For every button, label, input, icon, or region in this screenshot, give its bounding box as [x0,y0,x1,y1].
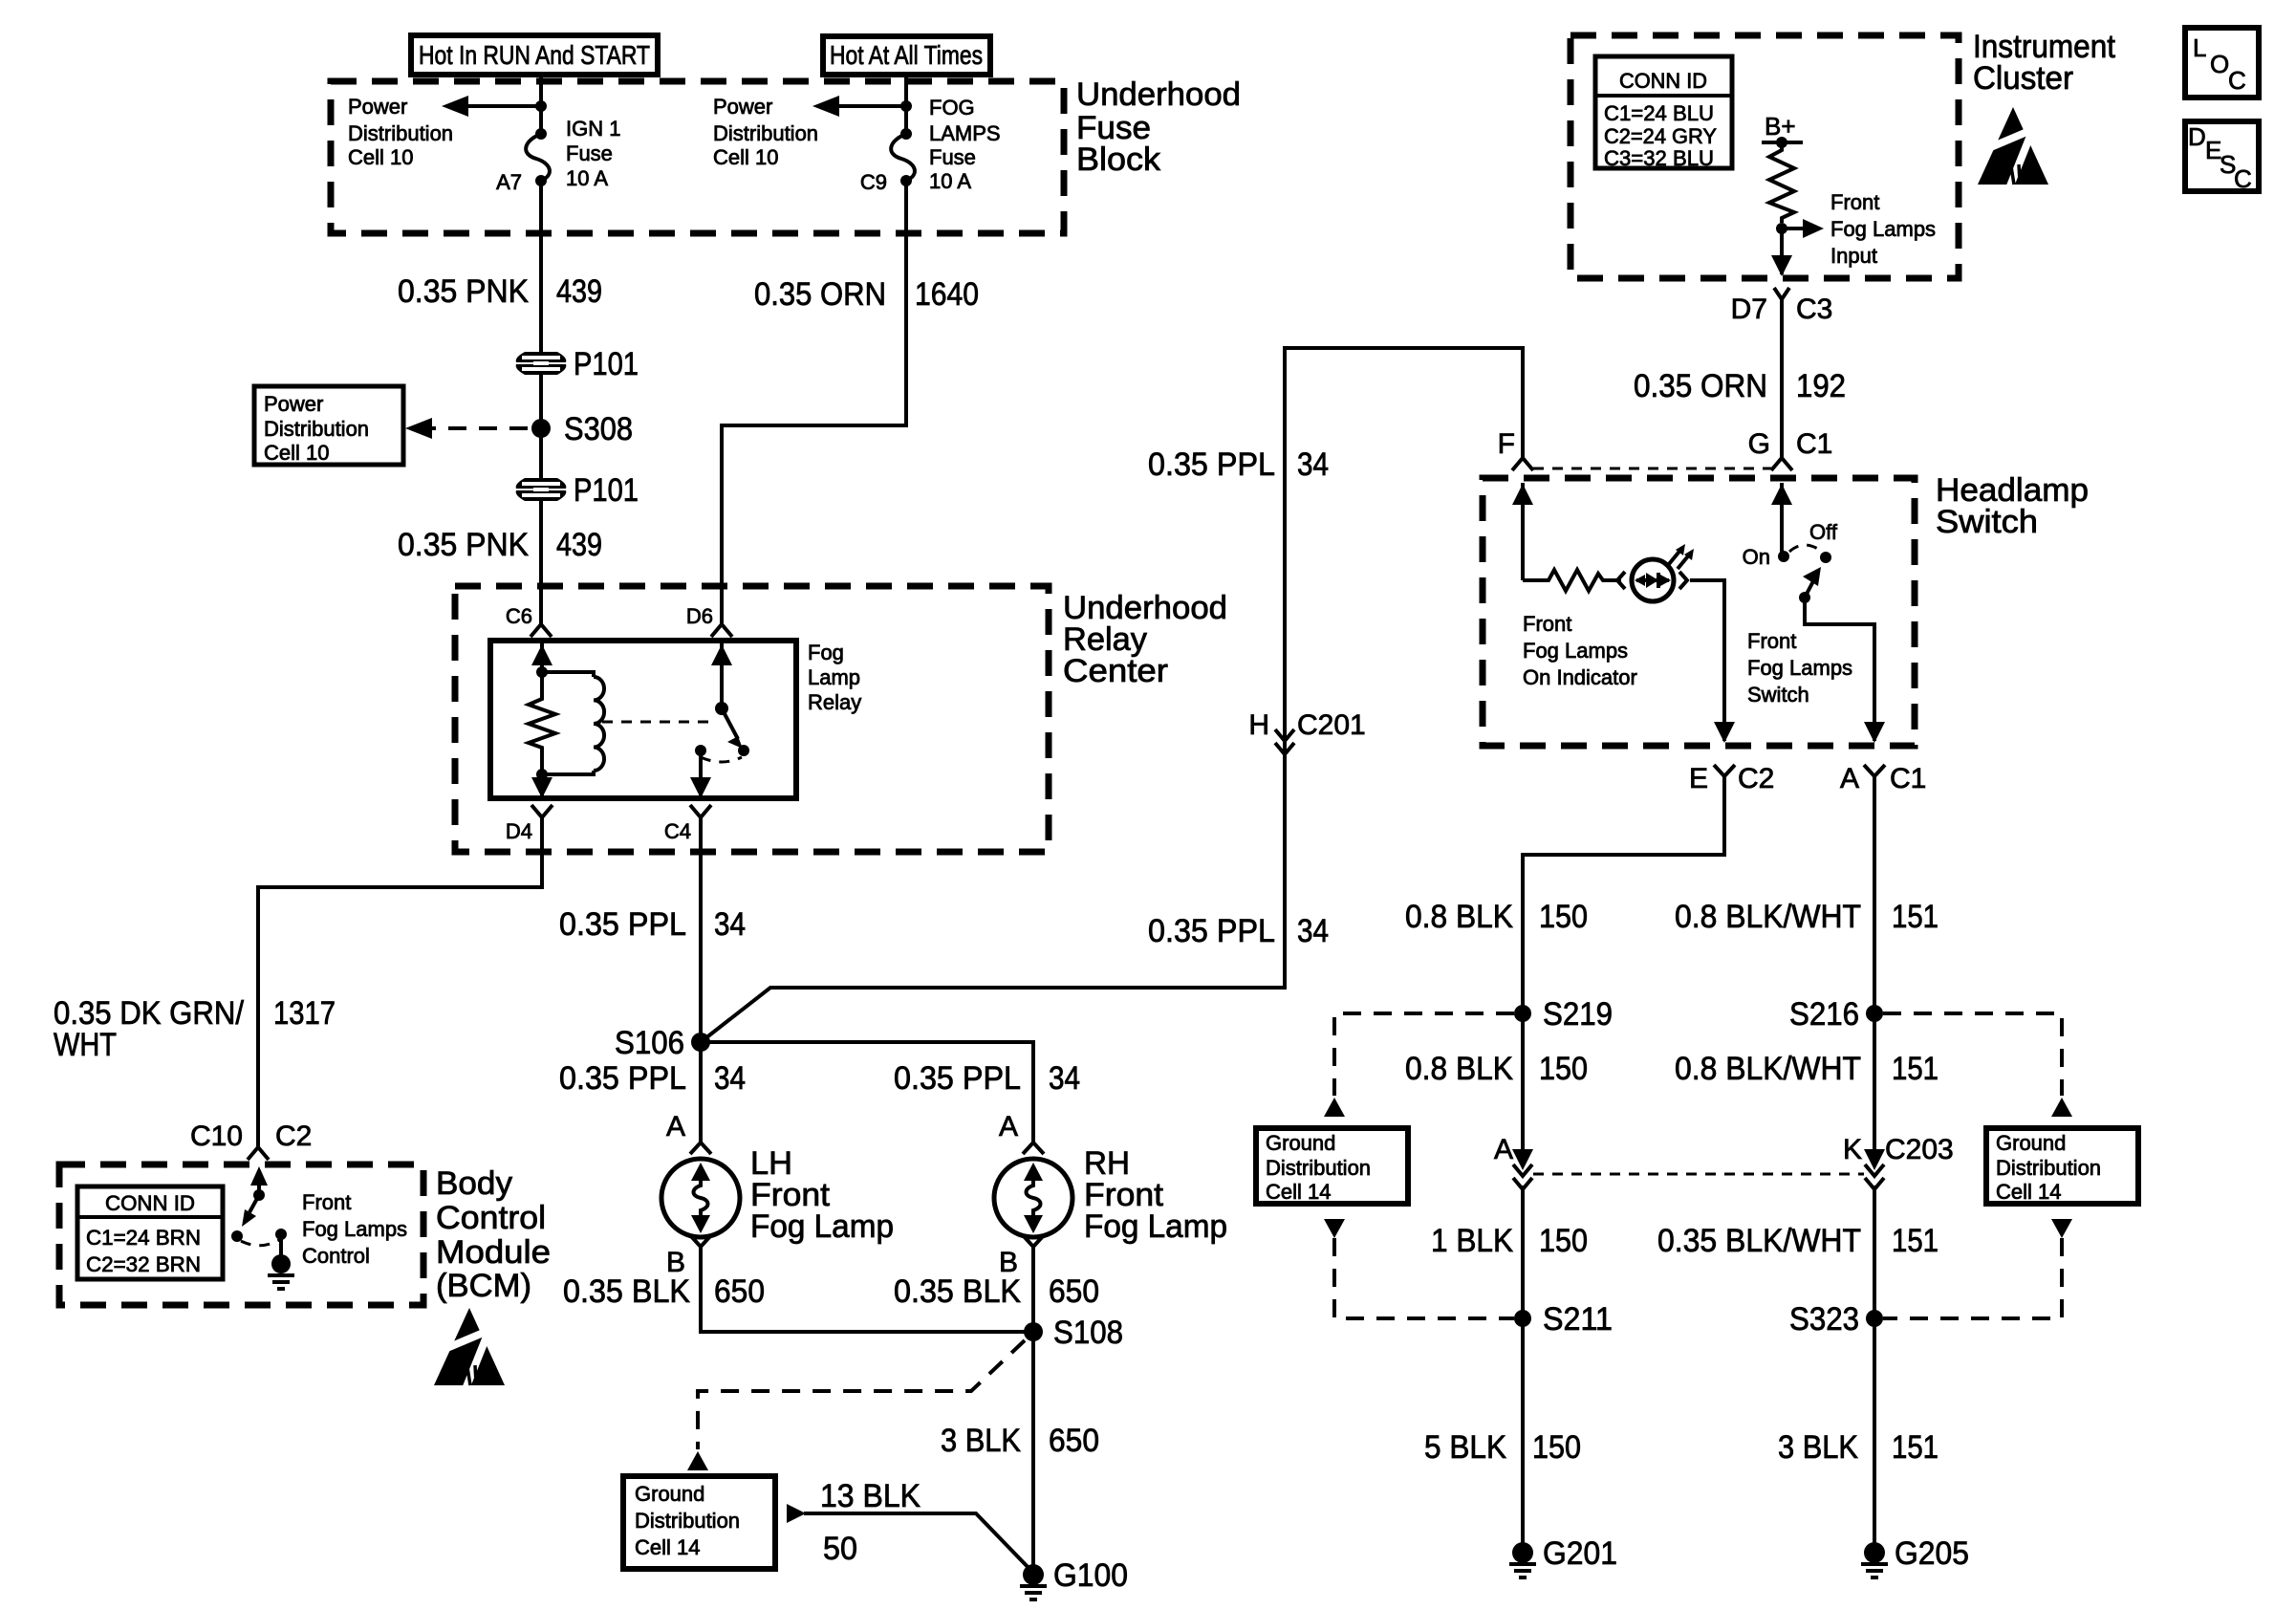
svg-text:34: 34 [714,1060,746,1097]
svg-text:A: A [1494,1134,1513,1165]
reference arrow (up triangle, left) [1324,1098,1345,1117]
svg-text:S108: S108 [1053,1315,1123,1351]
ground G100 [1020,1564,1047,1599]
underhood fuse block label [1076,76,1241,178]
wire label 13 BLK / 50 [820,1478,921,1567]
svg-text:C1=24 BLU: C1=24 BLU [1604,101,1714,125]
svg-text:650: 650 [1049,1423,1099,1459]
svg-text:Power: Power [264,392,323,416]
reference arrow (down triangle, left) [1324,1219,1345,1238]
pin labels K | C203 [1843,1134,1954,1165]
connector C203 right (arrow + double chevron) [1864,1149,1885,1189]
splice S216 [1866,1005,1883,1022]
svg-text:Fog Lamp: Fog Lamp [750,1208,894,1245]
text: Power Distribution Cell 10 (right) [713,95,818,169]
svg-text:3 BLK: 3 BLK [1778,1429,1858,1466]
svg-text:3 BLK: 3 BLK [941,1423,1021,1459]
underhood fuse block dashed box [331,81,1064,233]
connector chevron B (LH) [690,1235,711,1247]
svg-text:0.35 PPL: 0.35 PPL [559,906,686,943]
BCM internal ground [268,1234,294,1289]
svg-text:C: C [2228,66,2246,95]
svg-text:Front: Front [1523,612,1571,636]
wire label 0.35 PPL 34 (below C4) [559,906,746,943]
LH fog lamp label [750,1145,894,1245]
svg-text:FOG: FOG [929,96,975,120]
svg-text:150: 150 [1532,1429,1581,1466]
svg-text:0.35 ORN: 0.35 ORN [1634,368,1767,404]
fuse label: IGN 1 Fuse 10 A [566,117,620,190]
svg-text:C2: C2 [275,1120,312,1152]
svg-text:G205: G205 [1895,1535,1969,1572]
svg-text:Fog Lamps: Fog Lamps [1830,217,1936,241]
svg-text:1317: 1317 [273,995,336,1032]
splice S219 [1514,1005,1531,1022]
text: Power Distribution Cell 10 (left) [348,95,453,169]
svg-text:Input: Input [1830,244,1877,268]
svg-text:CONN ID: CONN ID [105,1191,195,1215]
pin labels C10 | C2 [190,1120,312,1152]
svg-text:P101: P101 [574,472,639,509]
svg-text:S216: S216 [1789,996,1859,1033]
BCM CONN ID box [77,1186,223,1279]
svg-text:Cell 14: Cell 14 [1996,1180,2061,1204]
svg-text:C3=32 BLU: C3=32 BLU [1604,146,1714,170]
RH front fog lamp [994,1159,1072,1237]
BCM switch pivot node [253,1189,265,1201]
connector chevron C10/C2 [248,1147,269,1160]
wire label 0.8 BLK 150 (mid) [1405,1051,1588,1087]
LED indicator [1617,544,1694,601]
svg-text:D4: D4 [506,819,532,843]
svg-text:10 A: 10 A [929,169,971,193]
instrument CONN ID box [1595,56,1732,170]
DESC box [2185,121,2259,193]
svg-text:0.8 BLK: 0.8 BLK [1405,899,1513,935]
wire label 0.8 BLK/WHT 151 (mid) [1675,1051,1939,1087]
fuse IGN 1 (A7) [526,128,550,186]
svg-text:Center: Center [1063,653,1168,689]
ground G201 [1509,1542,1536,1577]
coil output arrow (to D4) [531,774,552,798]
svg-text:H: H [1248,709,1269,741]
svg-text:Block: Block [1076,141,1161,178]
svg-text:C2=32 BRN: C2=32 BRN [86,1252,201,1276]
switch output arrow (to C4) [690,751,711,798]
switch arm end node [738,745,749,756]
thin dashed connector line F-G [1533,468,1771,470]
svg-text:Cell 10: Cell 10 [264,441,329,465]
svg-text:G201: G201 [1543,1535,1617,1572]
BCM switch contact node [231,1230,243,1242]
B+ terminal [1762,112,1803,148]
svg-text:192: 192 [1796,368,1846,404]
svg-text:Distribution: Distribution [264,417,369,441]
svg-text:Fuse: Fuse [566,141,613,165]
svg-text:150: 150 [1539,1051,1588,1087]
svg-text:Fog: Fog [808,641,844,664]
svg-text:1 BLK: 1 BLK [1431,1223,1513,1259]
svg-text:On: On [1743,545,1770,569]
box: Ground Distribution Cell 14 (right) [1986,1128,2138,1204]
svg-text:S106: S106 [615,1025,684,1061]
svg-text:0.35 PPL: 0.35 PPL [894,1060,1021,1097]
svg-text:13 BLK: 13 BLK [820,1478,921,1514]
wire: fuse IGN1 down through label to P101 [539,181,543,353]
wire from Hot In RUN box down to fuse IGN 1 [539,75,543,132]
svg-text:1640: 1640 [915,276,979,313]
svg-text:151: 151 [1892,899,1939,935]
connector chevron C6 [531,624,552,637]
arrow: front fog lamps input tap [1782,219,1824,238]
switch pivot node [715,702,728,715]
box: Power Distribution Cell 10 [254,386,403,465]
svg-text:0.35 BLK/WHT: 0.35 BLK/WHT [1657,1223,1861,1259]
splice S323 [1866,1310,1883,1327]
svg-text:Switch: Switch [1747,683,1809,707]
thin dashed connector line C203 [1533,1173,1864,1176]
connector chevron E [1714,765,1735,776]
svg-text:C1: C1 [1890,763,1926,794]
wire label 3 BLK 151 [1778,1429,1939,1466]
svg-text:C1=24 BRN: C1=24 BRN [86,1226,201,1250]
wire label 5 BLK 150 [1424,1429,1581,1466]
13 BLK wire with arrow into ground distribution box [787,1504,1033,1573]
svg-text:A: A [999,1111,1018,1142]
relay coil input arrow (from C6) [531,641,552,672]
coil bottom node [536,769,548,780]
svg-text:Fog Lamps: Fog Lamps [302,1217,407,1241]
svg-text:0.35 PNK: 0.35 PNK [398,527,529,563]
pin labels G | C1 [1748,428,1833,460]
svg-text:Distribution: Distribution [1996,1156,2101,1180]
wire label 0.35 PPL 34 (riser lower) [1148,913,1329,949]
dashed reference to S211 [1334,1238,1514,1318]
wire from Hot At All Times box down to fuse FOG LAMPS [904,75,908,134]
BCM input arrow (from C2) [250,1166,268,1195]
dashed throw arc (BCM) [241,1240,279,1246]
svg-text:CONN ID: CONN ID [1619,69,1707,93]
underhood relay center dashed box [455,586,1049,852]
pin labels D7 | C3 [1731,294,1833,325]
splice S308 [531,419,551,438]
On/Off switch [1743,520,1838,603]
wire label 0.35 ORN 1640 [754,276,979,313]
relay switch arm with arrowhead [722,708,743,749]
svg-text:650: 650 [1049,1273,1099,1310]
relay resistor (vertical zigzag) [529,672,555,774]
wire label 0.35 PPL 34 (LH) [559,1060,746,1097]
BCM ground contact node [275,1229,287,1240]
svg-text:A7: A7 [496,170,522,194]
wire label 0.35 DK GRN/ WHT 1317 [54,995,336,1063]
wire label 0.35 BLK 650 (RH) [894,1273,1099,1310]
svg-text:A: A [666,1111,685,1142]
relay switch common arrow (from D6) [711,641,732,708]
wire A down to S216 column [1873,776,1876,1149]
svg-text:Cell 14: Cell 14 [635,1535,700,1559]
svg-text:C1: C1 [1796,428,1832,460]
svg-text:Cell 10: Cell 10 [348,145,413,169]
svg-text:Distribution: Distribution [1266,1156,1371,1180]
svg-text:Off: Off [1809,520,1838,544]
wire C203 to S211 [1521,1186,1525,1546]
wire C203 to S323 [1873,1186,1876,1546]
svg-text:Hot At All Times: Hot At All Times [830,40,983,70]
svg-text:150: 150 [1539,1223,1588,1259]
LOC box [2185,28,2259,98]
text: Front Fog Lamps On Indicator [1523,612,1637,689]
node to fog lamps input [1776,223,1787,234]
switch output contact node [695,745,706,756]
underhood relay center label [1063,590,1227,689]
indicator resistor [1523,570,1621,591]
svg-text:Control: Control [436,1200,546,1236]
wire from S106 up-right to headlamp switch F [701,348,1523,1042]
pin labels E | C2 [1689,763,1774,794]
wire label 0.35 PNK 439 (upper) [398,273,602,310]
svg-text:Distribution: Distribution [635,1509,740,1533]
svg-text:F: F [1498,428,1515,460]
dashed reference to S323 [1883,1238,2062,1318]
svg-text:K: K [1843,1134,1862,1165]
wire RH lamp B down through S108 to G100 [1031,1247,1035,1569]
svg-text:Body: Body [436,1165,512,1202]
svg-text:C: C [2234,164,2252,193]
wire LH lamp B to S108 [701,1247,1033,1332]
svg-text:(BCM): (BCM) [436,1268,531,1304]
arrow to Power Distribution Cell 10 (right) [812,96,906,117]
dashed throw arc [701,757,742,762]
svg-text:C10: C10 [190,1120,243,1152]
svg-text:0.8 BLK/WHT: 0.8 BLK/WHT [1675,899,1861,935]
connector chevron F [1512,458,1533,470]
dashed reference from S108 to ground distribution [698,1340,1025,1449]
svg-text:151: 151 [1892,1223,1939,1259]
connector chevron B (RH) [1023,1235,1044,1247]
svg-text:B+: B+ [1765,112,1796,141]
RH fog lamp label [1084,1145,1227,1245]
svg-text:E: E [1689,763,1708,794]
E output arrow [1714,722,1735,743]
connector chevron D7/C3 [1774,288,1789,304]
svg-text:34: 34 [714,906,746,943]
svg-text:Front: Front [302,1190,351,1214]
svg-text:L: L [2193,33,2206,62]
headlamp switch dashed box [1483,478,1915,746]
svg-text:C2: C2 [1738,763,1774,794]
svg-text:Control: Control [302,1244,370,1268]
dashed reference arrow to Power Distribution Cell 10 [405,418,528,439]
svg-text:50: 50 [823,1531,857,1567]
connector chevron C4 [690,805,711,822]
text: Front Fog Lamps Switch [1747,629,1852,707]
svg-text:0.35 PPL: 0.35 PPL [559,1060,686,1097]
connector chevron G [1771,458,1792,470]
wire label 0.35 PPL 34 (RH) [894,1060,1080,1097]
grommet P101 (lower) [516,478,567,501]
svg-text:C203: C203 [1885,1134,1954,1165]
text: Front Fog Lamps Input [1830,190,1936,268]
wire switch to A [1805,598,1874,741]
svg-text:WHT: WHT [54,1027,117,1063]
label box: Hot In RUN And START [411,35,658,75]
svg-text:Front: Front [1830,190,1879,214]
svg-text:151: 151 [1892,1429,1939,1466]
text: Front Fog Lamps Control [302,1190,407,1268]
output arrow to D7 [1771,228,1792,276]
svg-text:0.8 BLK/WHT: 0.8 BLK/WHT [1675,1051,1861,1087]
svg-text:34: 34 [1297,913,1329,949]
svg-text:LAMPS: LAMPS [929,121,1001,145]
svg-text:O: O [2210,50,2229,78]
pin labels H | C201 [1248,709,1365,741]
wire E down to S219 column [1523,776,1724,1149]
node at power distribution tap (right fuse) [900,100,912,112]
svg-text:D: D [2188,122,2206,151]
svg-text:5 BLK: 5 BLK [1424,1429,1506,1466]
svg-text:0.8 BLK: 0.8 BLK [1405,1051,1513,1087]
svg-text:On Indicator: On Indicator [1523,665,1637,689]
reference arrow (up triangle) [687,1451,708,1470]
svg-text:C4: C4 [664,819,691,843]
svg-text:34: 34 [1297,446,1329,483]
svg-text:Front: Front [1747,629,1796,653]
svg-text:Underhood: Underhood [1076,76,1241,113]
svg-text:151: 151 [1892,1051,1939,1087]
relay coil [542,672,604,774]
svg-text:150: 150 [1539,899,1588,935]
svg-text:0.35 PPL: 0.35 PPL [1148,446,1275,483]
instrument resistor [1769,142,1794,223]
svg-text:A: A [1840,763,1859,794]
wire from S106 right to RH fog lamp [701,1042,1033,1142]
relay label: Fog Lamp Relay [808,641,861,714]
arrow to Power Distribution Cell 10 (left) [442,96,541,117]
svg-text:Fog Lamps: Fog Lamps [1747,656,1852,680]
F input arrow [1512,483,1533,580]
svg-text:S308: S308 [564,411,633,447]
svg-text:0.35 BLK: 0.35 BLK [563,1273,690,1310]
svg-text:Ground: Ground [635,1482,704,1506]
reference arrow (down triangle, right) [2051,1219,2072,1238]
A output arrow [1864,722,1885,743]
svg-text:Switch: Switch [1936,504,2038,540]
svg-text:Lamp: Lamp [808,665,860,689]
svg-text:IGN 1: IGN 1 [566,117,620,141]
svg-text:Distribution: Distribution [348,121,453,145]
grommet P101 (upper) [516,352,567,375]
ESD symbol (instrument cluster) [1978,107,2048,188]
svg-text:0.35 ORN: 0.35 ORN [754,276,886,313]
wire LED to E [1690,580,1724,741]
svg-text:Distribution: Distribution [713,121,818,145]
wire between P101 and S308 [539,375,543,480]
wire label 0.8 BLK 150 (upper) [1405,899,1588,935]
wire C4 down to S106 [699,820,703,1042]
svg-text:C2=24 GRY: C2=24 GRY [1604,124,1717,148]
wire label 0.8 BLK/WHT 151 (upper) [1675,899,1939,935]
headlamp switch label [1936,472,2089,540]
svg-text:P101: P101 [574,346,639,382]
wire label 0.35 PNK 439 (lower) [398,527,602,563]
connector C203 left (arrow + double chevron) [1512,1149,1533,1189]
connector chevron A (RH) [1023,1142,1044,1154]
connector chevron D4 [531,805,552,822]
box: Ground Distribution Cell 14 (left) [1256,1128,1408,1204]
svg-text:Fog Lamp: Fog Lamp [1084,1208,1227,1245]
connector chevron D6 [711,624,732,637]
coil top node [536,666,548,678]
G input arrow [1771,483,1792,556]
reference arrow (up triangle, right) [2051,1098,2072,1117]
ground G205 [1861,1542,1888,1577]
ESD symbol (BCM) [434,1308,505,1389]
svg-text:34: 34 [1049,1060,1080,1097]
BCM switch arm with arrowhead [242,1195,259,1227]
wire label 3 BLK 650 [941,1423,1099,1459]
fuse label: FOG LAMPS Fuse 10 A [929,96,1001,193]
svg-text:Hot In RUN And START: Hot In RUN And START [419,40,650,70]
fuse FOG LAMPS (C9) [891,128,915,186]
box: Ground Distribution Cell 14 (center) [623,1476,775,1569]
svg-text:Cluster: Cluster [1973,60,2073,97]
splice S211 [1514,1310,1531,1327]
connector chevron A (headlamp) [1864,765,1885,776]
svg-text:C6: C6 [506,604,532,628]
svg-text:C201: C201 [1297,709,1366,741]
svg-text:Relay: Relay [808,690,861,714]
svg-text:Fog Lamps: Fog Lamps [1523,639,1628,663]
splice S106 [691,1033,710,1052]
svg-text:G100: G100 [1053,1557,1128,1594]
svg-text:439: 439 [556,527,602,563]
svg-text:D7: D7 [1731,294,1767,325]
svg-text:Ground: Ground [1996,1131,2066,1155]
BCM dashed box [59,1164,423,1305]
svg-text:Cell 10: Cell 10 [713,145,778,169]
wire S106 down to LH fog lamp [699,1042,703,1142]
svg-text:Fuse: Fuse [929,145,976,169]
LH front fog lamp [661,1159,740,1237]
svg-text:S323: S323 [1789,1301,1859,1338]
svg-text:C9: C9 [860,170,887,194]
svg-text:439: 439 [556,273,602,310]
svg-text:0.35 PNK: 0.35 PNK [398,273,529,310]
fog lamp relay box [490,641,796,798]
dashed reference S216 to right ground distribution [1883,1013,2062,1096]
BCM label: Body Control Module (BCM) [436,1165,551,1304]
svg-text:Power: Power [713,95,772,119]
pin labels A | C1 [1840,763,1926,794]
svg-text:S211: S211 [1543,1301,1613,1338]
svg-text:Cell 14: Cell 14 [1266,1180,1331,1204]
splice S108 [1024,1322,1043,1341]
svg-text:Power: Power [348,95,407,119]
svg-text:Ground: Ground [1266,1131,1335,1155]
wire: fuse FOG LAMPS down [722,181,906,623]
instrument cluster dashed box [1570,35,1959,278]
instrument cluster label [1973,29,2116,97]
wire label 0.35 ORN 192 [1634,368,1846,404]
label box: Hot At All Times [823,36,990,75]
svg-text:0.35 PPL: 0.35 PPL [1148,913,1275,949]
dashed actuation link from coil to switch [602,721,715,724]
node at power distribution tap (left fuse) [535,100,547,112]
svg-text:S219: S219 [1543,996,1613,1033]
svg-text:C3: C3 [1796,294,1832,325]
wire label 0.35 BLK/WHT 151 [1657,1223,1939,1259]
